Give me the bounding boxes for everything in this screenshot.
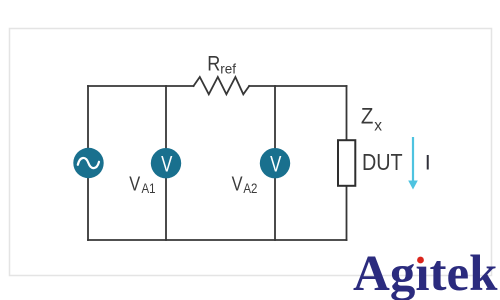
svg-text:V: V bbox=[270, 152, 282, 177]
svg-text:R: R bbox=[207, 52, 220, 76]
label Z_x bbox=[361, 104, 382, 135]
svg-text:V: V bbox=[129, 172, 140, 195]
svg-text:I: I bbox=[425, 151, 431, 175]
svg-text:A2: A2 bbox=[243, 181, 257, 196]
svg-text:Agıtek: Agıtek bbox=[353, 246, 498, 300]
wire V_A2 vertical branch bbox=[274, 86, 276, 240]
AC source V1 bbox=[73, 148, 103, 178]
svg-text:V: V bbox=[232, 172, 243, 195]
wire top-left segment bbox=[88, 85, 194, 87]
wire top-right segment bbox=[249, 85, 346, 87]
label DUT bbox=[362, 150, 403, 176]
label V_A1 bbox=[129, 172, 155, 197]
resistor label R_ref bbox=[207, 52, 236, 76]
Agitek logo red dot on i bbox=[417, 257, 424, 264]
current arrow I bbox=[408, 137, 418, 190]
voltmeter U1 (V_A1) bbox=[151, 148, 181, 178]
svg-text:DUT: DUT bbox=[362, 150, 403, 176]
resistor R_ref zigzag bbox=[194, 77, 250, 94]
wire right vertical upper segment bbox=[346, 86, 348, 139]
wire right vertical lower segment bbox=[346, 187, 348, 240]
voltmeter U2 (V_A2) bbox=[260, 148, 290, 178]
wire left vertical branch bbox=[87, 86, 89, 240]
label V_A2 bbox=[232, 172, 258, 197]
DUT Z_x body bbox=[338, 140, 355, 186]
svg-text:Z: Z bbox=[361, 104, 374, 129]
wire bottom segment bbox=[88, 239, 347, 241]
svg-text:ref: ref bbox=[220, 61, 236, 76]
svg-text:x: x bbox=[374, 117, 382, 134]
svg-text:V: V bbox=[161, 152, 173, 177]
svg-text:A1: A1 bbox=[142, 181, 156, 196]
wire V_A1 vertical branch bbox=[165, 86, 167, 240]
